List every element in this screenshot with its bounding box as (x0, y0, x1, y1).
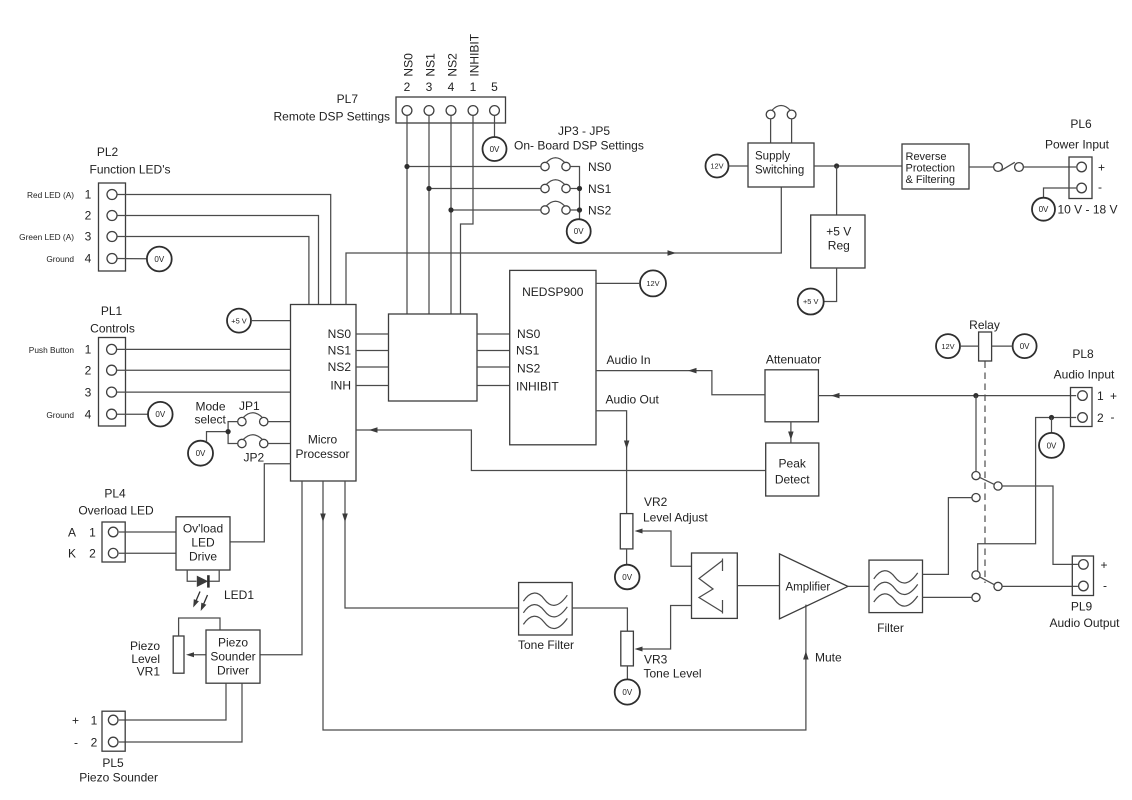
svg-text:NS1: NS1 (516, 344, 540, 358)
wire junction to +5V reg (836, 166, 838, 215)
svg-text:INH: INH (330, 379, 351, 393)
svg-text:NS0: NS0 (588, 160, 612, 174)
svg-text:+: + (72, 714, 79, 728)
potentiometer VR1 Piezo Level (173, 636, 184, 673)
PL4 pin labels (68, 526, 96, 561)
wire tone filter to VR3 (572, 608, 627, 631)
svg-text:PL9: PL9 (1071, 600, 1093, 614)
svg-text:3: 3 (426, 80, 433, 94)
svg-text:PL2: PL2 (97, 145, 119, 159)
wire PL1 pin1 to microprocessor (117, 348, 291, 350)
wire PL2 pin4 to 0V (117, 258, 147, 260)
wire micro to interface NS0 (356, 333, 389, 335)
potentiometer VR2 (620, 514, 633, 549)
svg-text:3: 3 (85, 385, 92, 399)
wire PL7 pin1 INHIBIT down (461, 115, 474, 314)
wire filter upper output to relay contact (923, 498, 972, 575)
relay actuation dashed link (984, 362, 986, 584)
arrow on power rail (668, 250, 677, 256)
svg-text:+: + (1101, 558, 1108, 572)
svg-text:Power Input: Power Input (1045, 138, 1110, 152)
ground node 0V (mode select) (188, 441, 213, 466)
svg-text:2: 2 (91, 736, 98, 750)
svg-text:On- Board DSP Settings: On- Board DSP Settings (514, 139, 644, 153)
wire micro audio-out request line (356, 430, 766, 471)
wire NEDSP900 to 12V (596, 282, 640, 284)
svg-text:Attenuator: Attenuator (766, 353, 821, 367)
wire relay coil to 0V (992, 345, 1013, 347)
svg-text:Push Button: Push Button (29, 345, 75, 355)
svg-text:1: 1 (91, 714, 98, 728)
wire PL2 pin3 to microprocessor (117, 237, 309, 305)
svg-text:5: 5 (491, 80, 498, 94)
connector PL7 Remote DSP Settings (396, 97, 506, 123)
net labels NS0 NS1 NS2 (588, 160, 612, 218)
svg-text:PL5: PL5 (102, 756, 124, 770)
svg-text:+5 V: +5 V (803, 297, 818, 306)
Micro Processor pin labels (328, 327, 352, 393)
wire PL6 pin2 to 0V (1044, 188, 1077, 198)
svg-text:LED1: LED1 (224, 588, 254, 602)
svg-text:Audio In: Audio In (607, 353, 651, 367)
svg-text:0V: 0V (622, 573, 632, 582)
PL9 title (1049, 600, 1120, 631)
wire JP2 to microprocessor (268, 443, 291, 445)
svg-text:0V: 0V (574, 227, 584, 236)
PL5 pin labels (72, 714, 98, 750)
svg-text:2: 2 (89, 547, 96, 561)
svg-text:+: + (1110, 389, 1117, 403)
svg-text:Overload LED: Overload LED (78, 504, 154, 518)
svg-text:& Filtering: & Filtering (906, 174, 956, 186)
junction supply output (834, 163, 839, 168)
svg-text:NS0: NS0 (517, 327, 541, 341)
svg-text:Audio Input: Audio Input (1054, 368, 1115, 382)
connector PL5 Piezo Sounder (102, 711, 125, 751)
svg-text:Filter: Filter (877, 621, 904, 635)
wire +5V reg output (824, 268, 837, 302)
wire micro to interface NS2 (356, 366, 389, 368)
potentiometer VR3 (621, 631, 634, 666)
svg-text:0V: 0V (1047, 441, 1057, 450)
PL7 pin numbers 2 3 4 1 5 (404, 80, 499, 94)
wire jumpers right common to 0V (570, 167, 579, 220)
block Ov'load LED Drive (176, 517, 230, 570)
jumper JP1 (238, 413, 268, 426)
svg-text:4: 4 (85, 407, 92, 421)
svg-text:JP2: JP2 (244, 451, 265, 465)
connector PL4 Overload LED (102, 522, 125, 562)
svg-text:Audio Output: Audio Output (1049, 616, 1120, 630)
svg-text:Sounder: Sounder (210, 650, 255, 664)
svg-text:Reg: Reg (828, 239, 850, 253)
svg-text:Processor: Processor (295, 447, 349, 461)
junction mode select (226, 429, 231, 434)
junction NS2 right (577, 207, 582, 212)
wire switch to PL6 pin1 (1023, 166, 1076, 168)
wire NS2 jumper right (570, 209, 579, 211)
wire VR1 top to piezo driver (179, 618, 220, 636)
wire 12V to supply switching (729, 165, 749, 167)
label Mode select (195, 400, 227, 427)
wire micro to supply switching (power rail) (346, 187, 781, 305)
svg-text:Mute: Mute (815, 651, 842, 665)
svg-text:Remote DSP Settings: Remote DSP Settings (273, 110, 390, 124)
label JP3 - JP5 On-Board DSP Settings (514, 124, 644, 153)
wire interface to NEDSP900 NS0 (477, 333, 510, 335)
wire PL4 pin2 to LED drive (119, 552, 176, 554)
wire PL2 pin2 to microprocessor (117, 216, 319, 305)
svg-text:4: 4 (448, 80, 455, 94)
svg-text:PL6: PL6 (1070, 117, 1092, 131)
svg-text:Drive: Drive (189, 550, 217, 564)
wire supply switching to reverse protection (814, 165, 902, 167)
wire +5V to microprocessor (251, 320, 291, 322)
svg-text:2: 2 (404, 80, 411, 94)
svg-text:Switching: Switching (755, 165, 804, 177)
block DSP settings interface (389, 314, 478, 401)
svg-text:Piezo: Piezo (130, 639, 160, 653)
arrow VR1 wiper (186, 652, 194, 657)
block Piezo Sounder Driver (206, 630, 260, 683)
svg-text:NS2: NS2 (517, 361, 541, 375)
ground node 0V (PL8) (1039, 433, 1064, 458)
power node 12V (relay) (936, 334, 960, 358)
svg-text:Mode: Mode (196, 400, 226, 414)
wire piezo driver to VR1 wiper (189, 654, 207, 656)
ground node 0V (PL7) (483, 137, 507, 161)
svg-text:2: 2 (85, 363, 92, 377)
svg-text:0V: 0V (490, 145, 500, 154)
wire PL8 pin2 to relay contact (978, 418, 1076, 571)
wire LED drive leg anode (187, 570, 196, 581)
wire PL1 pin2 to microprocessor (117, 369, 291, 371)
svg-text:NS2: NS2 (328, 360, 352, 374)
svg-text:Tone Level: Tone Level (644, 667, 702, 681)
jumper JP2 (238, 435, 268, 448)
wire NS2 jumper left (451, 209, 541, 211)
ground node 0V (PL2) (147, 247, 172, 272)
LED1 emission arrows (193, 592, 207, 612)
wire VR2 bottom to 0V (626, 549, 628, 565)
wire PL7 pin5 to 0V (494, 115, 496, 137)
arrow tone line down (342, 514, 348, 523)
block Tone Filter (519, 583, 573, 636)
svg-text:2: 2 (1097, 411, 1104, 425)
PL9 pin labels (1101, 558, 1108, 593)
wire attenuator to peak detect (790, 422, 792, 443)
jumper JP5 (NS2) (541, 201, 570, 214)
PL1 title (90, 304, 135, 336)
PL8 title (1054, 347, 1115, 382)
ground node 0V (VR3) (615, 679, 640, 704)
svg-text:12V: 12V (646, 279, 659, 288)
junction audio input to relay contact (973, 393, 978, 398)
relay contact upper (972, 472, 1002, 502)
arrow into microprocessor (369, 427, 378, 433)
svg-text:Detect: Detect (775, 473, 810, 487)
svg-text:1: 1 (89, 526, 96, 540)
wire micro to mute (323, 481, 806, 730)
wire NEDSP900 audio out to VR2 (596, 411, 627, 514)
arrow into peak detect (788, 432, 794, 441)
NEDSP900 pin labels NS0 NS1 NS2 INHIBIT (516, 327, 559, 394)
PL7 title (273, 92, 390, 124)
svg-text:INHIBIT: INHIBIT (516, 380, 559, 394)
svg-text:12V: 12V (710, 162, 723, 171)
wire NS1 jumper left (429, 188, 541, 190)
wire relay contact to audio input junction (975, 396, 977, 472)
block Peak Detect (766, 443, 819, 496)
svg-text:Protection: Protection (906, 163, 956, 175)
ground node 0V (PL1) (148, 402, 173, 427)
svg-text:INHIBIT: INHIBIT (468, 33, 482, 76)
svg-text:3: 3 (85, 230, 92, 244)
connector PL6 Power Input (1069, 157, 1092, 199)
svg-text:select: select (195, 413, 227, 427)
PL6 polarity labels (1098, 161, 1105, 195)
svg-text:Audio Out: Audio Out (606, 393, 660, 407)
wire PL1 pin4 to 0V (117, 413, 148, 415)
LED LED1 (197, 575, 209, 587)
svg-text:K: K (68, 547, 76, 561)
svg-text:NS2: NS2 (446, 53, 460, 77)
block U1 Micro Processor (291, 305, 357, 482)
ground node 0V (relay) (1013, 334, 1037, 358)
svg-text:Level Adjust: Level Adjust (643, 511, 708, 525)
svg-text:10 V - 18 V: 10 V - 18 V (1058, 203, 1118, 217)
svg-text:LED: LED (191, 536, 215, 550)
wire PL1 pin3 to microprocessor (117, 391, 291, 393)
wire micro to interface INH (356, 385, 389, 387)
junction NS1 right (577, 186, 582, 191)
switch SW1 (power) (994, 162, 1024, 171)
PL5 title (79, 756, 158, 785)
PL6 title (1045, 117, 1110, 152)
PL1 pin labels (29, 345, 75, 420)
svg-text:A: A (68, 526, 76, 540)
svg-text:0V: 0V (196, 449, 206, 458)
svg-text:Reverse: Reverse (906, 151, 947, 163)
jumper JP3 (NS0) (541, 158, 570, 171)
svg-text:Piezo Sounder: Piezo Sounder (79, 771, 158, 785)
wire mixer to amplifier (737, 585, 779, 587)
svg-text:Ground: Ground (46, 410, 74, 420)
wire relay contact to PL9 pin1 (1002, 486, 1078, 564)
svg-text:12V: 12V (941, 342, 954, 351)
svg-text:NS0: NS0 (402, 53, 416, 77)
wire PL7 pin2 NS0 down (406, 115, 408, 314)
connector PL9 Audio Output (1072, 556, 1093, 596)
svg-text:Ground: Ground (46, 254, 74, 264)
wire piezo driver to PL5 pin2 (119, 683, 242, 742)
svg-text:+: + (1098, 161, 1105, 175)
wire JP1/JP2 common (228, 422, 238, 444)
svg-text:2: 2 (85, 209, 92, 223)
svg-text:Amplifier: Amplifier (786, 582, 831, 594)
svg-text:JP1: JP1 (239, 399, 260, 413)
wire amplifier to filter (848, 585, 869, 587)
Micro Processor title (295, 433, 349, 462)
wire interface to NEDSP900 NS2 (477, 366, 510, 368)
svg-text:-: - (1098, 180, 1102, 194)
wire junction to 0V (PL8) (1051, 418, 1053, 434)
svg-text:JP3 - JP5: JP3 - JP5 (558, 124, 610, 138)
block Reverse Protection & Filtering (902, 144, 969, 189)
svg-text:PL8: PL8 (1072, 347, 1094, 361)
block mixer/combiner (692, 553, 738, 618)
svg-text:Peak: Peak (779, 457, 807, 471)
svg-text:4: 4 (85, 252, 92, 266)
wire micro to tone filter (345, 481, 519, 608)
svg-text:0V: 0V (1020, 342, 1030, 351)
svg-text:-: - (1103, 579, 1107, 593)
connector PL2 Function LED's (99, 183, 126, 271)
VR2 label (643, 495, 708, 525)
wire relay contact to PL9 pin2 (1002, 585, 1078, 587)
wire micro to piezo driver (260, 481, 302, 655)
power node +5V (regulator) (798, 289, 824, 315)
svg-text:0V: 0V (622, 688, 632, 697)
block U2 NEDSP900 (510, 270, 596, 444)
svg-text:0V: 0V (155, 410, 165, 419)
PL2 title (90, 145, 171, 177)
svg-text:Driver: Driver (217, 664, 249, 678)
svg-text:Piezo: Piezo (218, 636, 248, 650)
svg-text:Micro: Micro (308, 433, 338, 447)
amplifier A1 (780, 554, 848, 619)
svg-text:Red LED (A): Red LED (A) (27, 190, 74, 200)
junction NS2 (448, 207, 453, 212)
PL2 pin numbers 1-4 (85, 188, 92, 266)
arrow mute line down (320, 514, 326, 523)
wire supply jumper leg 1 (770, 119, 772, 143)
wire PL7 pin3 NS1 down (428, 115, 430, 314)
wire reverse protection to switch (969, 166, 994, 168)
svg-text:NS2: NS2 (588, 204, 612, 218)
wire VR2 wiper to mixer (638, 531, 692, 566)
wire micro to overload LED drive (230, 464, 291, 542)
wire supply jumper leg 2 (791, 119, 793, 143)
wire NS1 jumper right (570, 188, 579, 190)
power node +5V (microprocessor) (227, 309, 251, 333)
PL8 pin labels (1097, 389, 1117, 425)
wire attenuator to NEDSP900 audio in (596, 371, 765, 395)
svg-text:NS0: NS0 (328, 327, 352, 341)
VR3 label (644, 653, 702, 681)
arrow into attenuator (831, 393, 840, 399)
svg-text:1: 1 (85, 188, 92, 202)
wire piezo driver to PL5 pin1 (119, 683, 226, 720)
wire VR3 wiper to mixer (638, 606, 692, 650)
block Attenuator (765, 353, 821, 422)
jumper supply select (766, 106, 796, 119)
wire PL4 pin1 to LED drive (119, 531, 176, 533)
arrow audio in (688, 368, 697, 374)
svg-text:PL1: PL1 (101, 304, 123, 318)
svg-text:PL4: PL4 (104, 487, 126, 501)
svg-text:Supply: Supply (755, 151, 790, 163)
VR1 label (130, 639, 160, 679)
PL7 signal names NS0 NS1 NS2 INHIBIT (vertical) (402, 33, 482, 76)
arrow audio out down (624, 441, 630, 450)
wire filter lower output to relay contact (923, 596, 972, 598)
junction NS1 (426, 186, 431, 191)
wire JP1 to microprocessor (268, 421, 291, 423)
wire mode select to 0V (207, 432, 229, 442)
wire PL8 to attenuator (818, 395, 1076, 397)
block Supply Switching (748, 143, 814, 187)
svg-text:Green LED (A): Green LED (A) (19, 232, 74, 242)
svg-text:-: - (74, 736, 78, 750)
arrow mute line up into amplifier (803, 651, 809, 660)
junction NS0 (404, 164, 409, 169)
svg-text:1: 1 (470, 80, 477, 94)
connector PL8 Audio Input (1071, 388, 1093, 427)
svg-text:Tone Filter: Tone Filter (518, 638, 574, 652)
svg-text:Relay: Relay (969, 318, 1000, 332)
svg-text:1: 1 (85, 343, 92, 357)
PL2 pin labels (19, 190, 74, 264)
svg-text:NS1: NS1 (588, 182, 612, 196)
svg-text:VR1: VR1 (137, 665, 161, 679)
junction PL8 pin2 to 0V (1049, 415, 1054, 420)
svg-text:VR2: VR2 (644, 495, 668, 509)
wire 12V to relay coil (960, 345, 979, 347)
wire PL7 pin4 NS2 down (450, 115, 452, 314)
svg-text:NEDSP900: NEDSP900 (522, 285, 584, 299)
svg-text:Controls: Controls (90, 322, 135, 336)
wire interface to NEDSP900 NS1 (477, 350, 510, 352)
svg-text:-: - (1111, 410, 1115, 424)
wire PL2 pin1 to microprocessor (117, 195, 331, 305)
svg-text:PL7: PL7 (337, 92, 359, 106)
arrow VR2 wiper (635, 529, 643, 534)
svg-text:NS1: NS1 (328, 344, 352, 358)
wire micro to interface NS1 (356, 350, 389, 352)
svg-text:Function LED's: Function LED's (90, 163, 171, 177)
svg-text:0V: 0V (1039, 205, 1049, 214)
jumper JP4 (NS1) (541, 180, 570, 193)
block +5 V Reg (811, 215, 865, 268)
block Filter (869, 560, 923, 613)
PL1 pin numbers 1-4 (85, 343, 92, 422)
power node 12V (supply) (706, 155, 729, 178)
ground node 0V (DSP jumpers) (567, 219, 591, 243)
svg-text:+5 V: +5 V (231, 316, 246, 325)
svg-text:+5 V: +5 V (826, 225, 851, 239)
svg-text:NS1: NS1 (424, 53, 438, 77)
wire interface to NEDSP900 INHIBIT (477, 385, 510, 387)
wire VR3 bottom to 0V (626, 666, 628, 680)
power node 12V (NEDSP900) (640, 270, 666, 296)
wire NS0 jumper left (407, 166, 541, 168)
relay contact lower (972, 571, 1002, 602)
PL4 title (78, 487, 154, 518)
svg-text:1: 1 (1097, 389, 1104, 403)
ground node 0V (VR2) (615, 565, 640, 590)
svg-text:VR3: VR3 (644, 653, 668, 667)
svg-text:0V: 0V (154, 255, 164, 264)
ground node 0V (PL6) (1032, 198, 1055, 221)
wire LED drive leg cathode (209, 570, 220, 581)
arrow VR3 wiper (635, 647, 643, 652)
connector PL1 Controls (99, 338, 126, 427)
relay RL1 coil (969, 318, 1000, 361)
svg-text:Ov'load: Ov'load (183, 522, 223, 536)
